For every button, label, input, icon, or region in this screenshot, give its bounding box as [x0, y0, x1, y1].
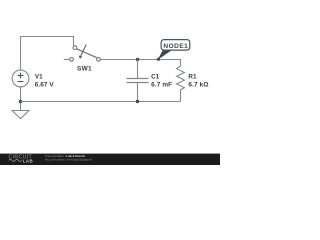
terminal left: [70, 58, 74, 62]
wire V1 top to switch: [21, 37, 74, 71]
footer bar: [0, 154, 220, 165]
switch SW1: [70, 46, 101, 61]
svg-text:6.67 V: 6.67 V: [35, 81, 55, 88]
resistor R1: [177, 66, 185, 102]
node junction dot: [19, 100, 22, 103]
node dot C1 bottom: [136, 100, 139, 103]
wire V1 bottom to ground node: [20, 87, 22, 111]
bottom rail: [21, 101, 181, 103]
stub left terminal: [64, 58, 69, 60]
ground: [12, 111, 29, 119]
svg-text:SW1: SW1: [77, 66, 92, 73]
svg-text:NODE1: NODE1: [163, 43, 188, 50]
node dot C1 top: [136, 58, 139, 61]
capacitor C1: [137, 60, 139, 79]
wire switch to R1 top rail: [100, 60, 180, 66]
node junction dot at NODE1: [157, 58, 160, 61]
svg-text:6.7 mF: 6.7 mF: [151, 81, 172, 88]
svg-text:C1: C1: [151, 74, 160, 81]
node label NODE1 callout tail: [158, 50, 172, 59]
svg-text:LAB: LAB: [23, 158, 34, 163]
switch arrow: [81, 44, 87, 56]
terminal right: [97, 58, 101, 62]
svg-text:R1: R1: [188, 74, 197, 81]
voltage source V1: [12, 70, 29, 87]
svg-text:http://circuitlab.com/c/dge3fg: http://circuitlab.com/c/dge3fgqbgm6: [45, 157, 93, 161]
svg-text:6.7 kΩ: 6.7 kΩ: [188, 81, 208, 88]
terminal top: [73, 46, 77, 50]
switch blade: [76, 49, 97, 58]
svg-text:V1: V1: [35, 74, 43, 81]
